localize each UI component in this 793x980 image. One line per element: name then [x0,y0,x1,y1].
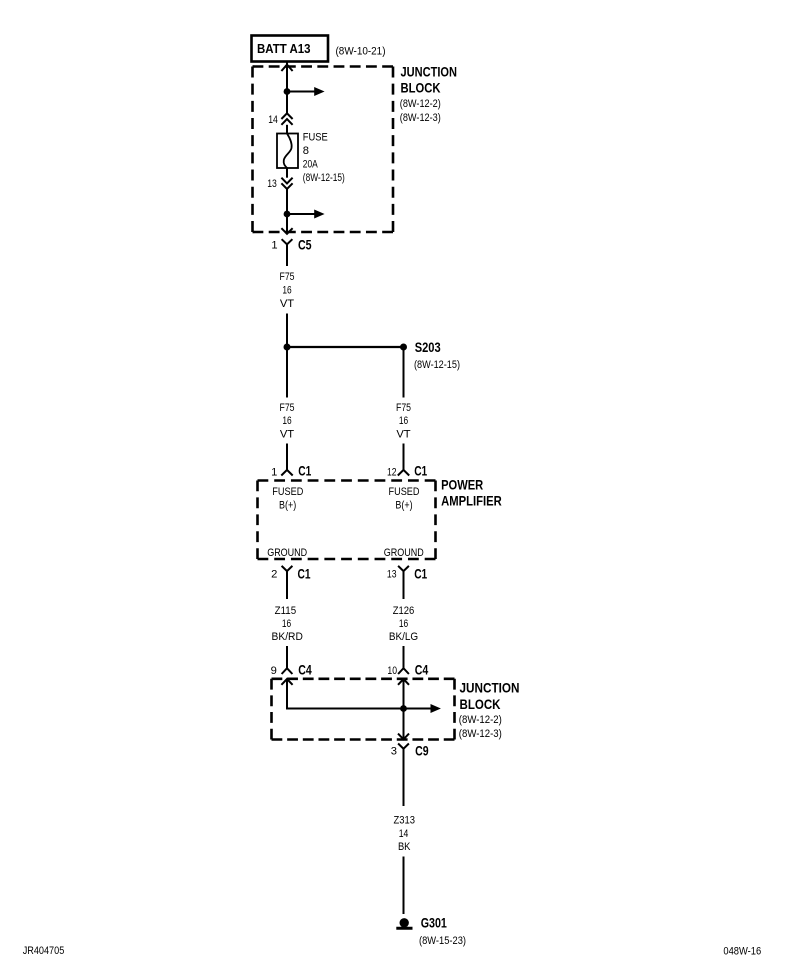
wire label Z115 16 BK/RD [272,605,303,643]
wire to ground G301 [403,857,405,915]
splice S203 [284,344,408,351]
junction block (top) dashed enclosure [253,67,394,233]
svg-text:VT: VT [280,298,294,310]
wire S203 down left [286,347,288,398]
junction dot (bottom branch) [284,211,291,218]
wire C5 to splice S203 [286,314,288,348]
svg-text:16: 16 [399,415,408,427]
svg-text:13: 13 [267,178,277,190]
svg-text:(8W-12-2): (8W-12-2) [459,714,502,726]
svg-text:C1: C1 [414,567,427,582]
svg-text:BK/RD: BK/RD [272,631,303,643]
svg-text:(8W-10-21): (8W-10-21) [336,46,386,58]
wire to C1 pin 12 [403,444,405,470]
svg-text:FUSED: FUSED [389,486,420,498]
svg-text:C1: C1 [298,464,311,479]
power amplifier dashed enclosure [258,481,436,560]
junction block (top) labels [400,65,457,124]
connector C1 pin 2 fork [282,566,293,599]
branch arrow to right (bottom) [287,210,325,219]
junction dot (top branch) [284,88,291,95]
svg-text:(8W-12-2): (8W-12-2) [400,98,441,110]
svg-text:16: 16 [282,284,291,296]
svg-text:12: 12 [387,466,397,478]
svg-text:B(+): B(+) [279,499,296,511]
svg-text:JUNCTION: JUNCTION [460,680,520,695]
svg-text:2: 2 [271,569,277,581]
svg-text:048W-16: 048W-16 [723,945,761,957]
connector C4 pin 10 fork [398,668,409,674]
svg-text:Z313: Z313 [393,815,415,827]
arrowhead down toward C5 [281,228,292,234]
svg-text:8: 8 [303,145,309,157]
fuse F8 element squiggle [284,134,292,169]
svg-text:Z126: Z126 [393,605,415,617]
svg-text:BK: BK [398,841,411,853]
svg-text:BLOCK: BLOCK [460,697,501,712]
junction dot inside lower block [400,705,407,712]
arrowhead up toward pin 10 inside block [398,679,409,685]
svg-text:B(+): B(+) [395,499,412,511]
svg-text:F75: F75 [396,402,411,414]
svg-text:FUSE: FUSE [303,131,328,143]
svg-text:VT: VT [280,428,294,440]
svg-text:C1: C1 [298,567,311,582]
svg-text:9: 9 [271,665,277,677]
svg-text:3: 3 [391,745,397,757]
svg-text:BK/LG: BK/LG [389,631,418,643]
svg-text:C4: C4 [415,662,429,677]
wire label F75 16 VT (left) [280,402,295,441]
connector C1 pin 1 fork [281,470,292,476]
wire S203 down right [403,347,405,398]
connector pass-through chevrons down (pin 13) [281,178,292,189]
svg-text:10: 10 [387,665,397,677]
svg-text:F75: F75 [280,271,295,283]
svg-text:14: 14 [399,828,409,840]
arrowhead down toward C9 [398,734,409,740]
junction block (lower) dashed enclosure [272,679,455,740]
svg-text:13: 13 [387,569,397,581]
svg-text:1: 1 [271,240,277,252]
svg-text:16: 16 [282,415,291,427]
junction block (lower) labels [459,680,520,740]
wire to C1 pin 1 [286,444,288,470]
connector C9 pin 3 fork [398,744,409,807]
svg-text:BATT A13: BATT A13 [257,42,311,56]
svg-text:(8W-12-3): (8W-12-3) [400,112,441,124]
svg-text:C9: C9 [415,743,429,758]
svg-text:(8W-12-15): (8W-12-15) [303,172,345,184]
connector C4 pin 9 fork [282,668,293,674]
wire to C4 pin 9 [286,646,288,668]
arrowhead up toward pin 9 inside block [281,679,292,685]
svg-text:(8W-12-15): (8W-12-15) [414,359,460,371]
branch arrow to right (top) [287,87,325,96]
connector C1 pin 12 fork [398,470,409,476]
svg-text:GROUND: GROUND [384,547,424,559]
fuse F8 body [277,134,298,169]
battery feed box BATT A13 [252,36,329,62]
fuse labels FUSE 8 20A (8W-12-15) [303,131,345,184]
svg-text:F75: F75 [280,402,295,414]
wire pin 9 down and right inside block [287,679,431,709]
svg-text:C4: C4 [298,662,312,677]
wire to C4 pin 10 [403,646,405,668]
svg-text:JUNCTION: JUNCTION [401,65,458,80]
svg-text:POWER: POWER [441,477,483,492]
wire chevrons to fuse [286,125,288,134]
power amplifier name labels [441,477,502,508]
ground symbol G301 [396,918,412,928]
svg-text:16: 16 [399,618,408,630]
svg-text:(8W-15-23): (8W-15-23) [419,935,466,947]
svg-text:S203: S203 [415,340,441,355]
svg-text:16: 16 [282,618,291,630]
svg-text:1: 1 [271,466,277,478]
connector pass-through chevrons up (pin 14) [281,113,292,125]
svg-text:JR404705: JR404705 [23,945,65,957]
wire label F75 16 VT (upper) [280,271,295,310]
svg-text:BLOCK: BLOCK [401,80,441,95]
svg-text:(8W-12-3): (8W-12-3) [459,728,502,740]
wire chevrons down to exit [286,189,288,234]
svg-text:GROUND: GROUND [267,547,307,559]
power amplifier pin labels [267,486,424,559]
wire label Z126 16 BK/LG [389,605,418,643]
svg-text:FUSED: FUSED [272,486,303,498]
connector C1 pin 13 fork [398,566,409,599]
svg-text:VT: VT [396,428,410,440]
svg-text:AMPLIFIER: AMPLIFIER [441,493,502,508]
svg-text:C5: C5 [298,238,312,253]
svg-text:14: 14 [268,114,278,126]
svg-text:C1: C1 [414,464,427,479]
svg-text:G301: G301 [421,915,447,930]
svg-text:20A: 20A [303,158,318,170]
wire label F75 16 VT (right) [396,402,411,441]
wire from BATT A13 down into junction block [286,62,288,114]
svg-text:Z115: Z115 [275,605,297,617]
wire fuse to chevrons [286,168,288,178]
wire pin 10 down through block [403,679,405,739]
branch arrowhead right inside block [431,704,441,713]
connector C5 pin 1 fork [282,239,293,266]
wire label Z313 14 BK [393,815,415,853]
arrowhead up toward BATT A13 [281,65,292,71]
